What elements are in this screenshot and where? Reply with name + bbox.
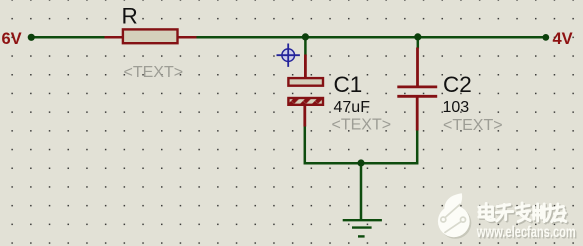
svg-text:<TEXT>: <TEXT> (124, 64, 184, 81)
svg-text:<TEXT>: <TEXT> (332, 117, 392, 134)
pin: C1 bottom (303, 105, 306, 127)
wire: 6V node to resistor left pin (31, 36, 106, 39)
junction node B (top of C2) (414, 33, 421, 40)
watermark text 电子发烧友 (hand-drawn strokes) (479, 203, 567, 223)
pin: resistor left (105, 36, 123, 39)
svg-text:47uF: 47uF (334, 99, 371, 116)
junction at ground rail (357, 159, 364, 166)
wire: resistor right pin to 4V node (196, 36, 546, 39)
svg-text:6V: 6V (2, 30, 22, 48)
svg-text:C2: C2 (443, 72, 472, 97)
capacitor C1 bottom plate (polarity hatched) (288, 98, 323, 105)
svg-text:103: 103 (443, 99, 470, 116)
svg-text:R: R (122, 4, 138, 29)
pin: resistor right (178, 36, 197, 39)
wire: node B down toward C2 (417, 37, 420, 49)
capacitor C2 bottom plate (397, 95, 437, 98)
wire: node A down toward C1 (304, 37, 307, 56)
wire: C1 bottom to ground rail (305, 126, 361, 164)
svg-text:www.elecfans.com: www.elecfans.com (476, 224, 576, 241)
origin marker (crosshair) (277, 44, 300, 67)
junction dot at 6V terminal (28, 34, 35, 41)
junction node A (top of C1) (302, 33, 309, 40)
svg-text:<TEXT>: <TEXT> (443, 117, 503, 134)
resistor R body (123, 29, 178, 43)
pin: C2 bottom (416, 97, 419, 131)
pin: C1 top (304, 55, 307, 79)
wire: ground stem (360, 163, 363, 220)
junction dot at 4V terminal (542, 34, 549, 41)
capacitor C1 top plate (288, 78, 323, 86)
pin: C2 top (416, 48, 419, 87)
ground symbol (343, 220, 382, 236)
capacitor C2 top plate (397, 86, 437, 89)
svg-text:C1: C1 (334, 72, 363, 97)
watermark logo circle (elecfans) (438, 193, 471, 239)
wire: C2 bottom to ground rail (361, 130, 417, 164)
svg-text:4V: 4V (553, 30, 573, 48)
